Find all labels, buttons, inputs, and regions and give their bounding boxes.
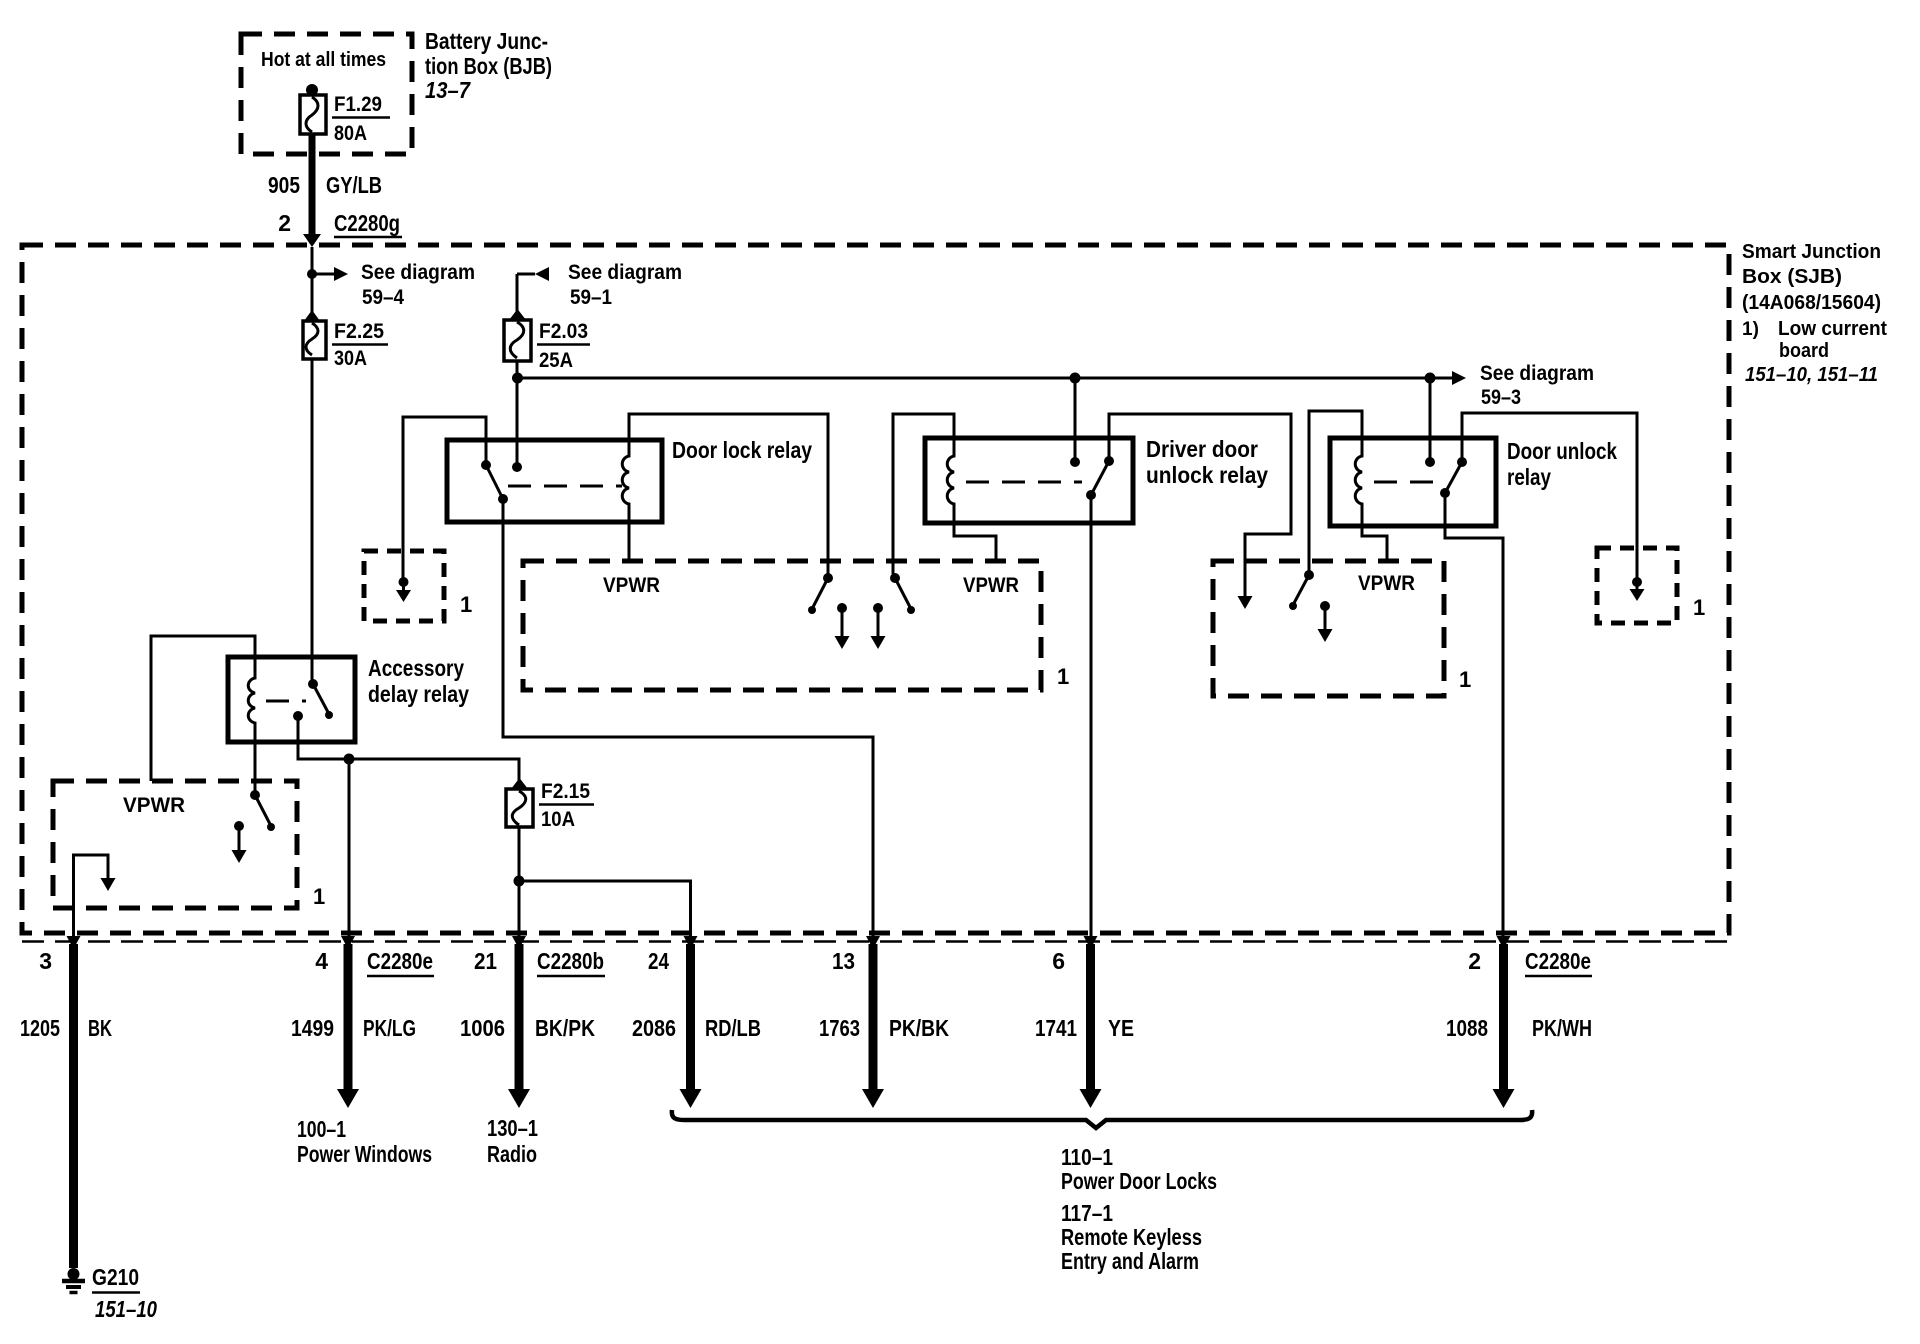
middle VPWR left switch arm xyxy=(812,578,828,609)
svg-text:tion Box (BJB): tion Box (BJB) xyxy=(425,53,552,79)
wire arrow: See diagram 59-1 (incoming) xyxy=(517,273,535,276)
wire: K2 coil top loop to VPWR switch xyxy=(893,414,954,574)
relay K3 mechanical link xyxy=(1374,481,1438,484)
svg-text:80A: 80A xyxy=(334,122,367,145)
left VPWR pin terminal with arrow xyxy=(234,821,244,831)
svg-text:RD/LB: RD/LB xyxy=(705,1015,761,1041)
svg-text:Box (SJB): Box (SJB) xyxy=(1742,266,1842,288)
wire: K2 coil bottom to VPWR bus xyxy=(954,505,996,561)
Battery Junction Box (BJB) dashed enclosure xyxy=(241,34,412,154)
svg-text:1763: 1763 xyxy=(819,1015,860,1041)
svg-text:BK/PK: BK/PK xyxy=(535,1015,595,1041)
svg-text:See diagram: See diagram xyxy=(361,261,475,284)
pin 6 connector arrow xyxy=(1084,936,1098,949)
node: junction under F2.03 xyxy=(512,373,523,384)
middle VPWR left switch node xyxy=(823,573,833,583)
fuse F2.15 10A xyxy=(506,778,594,831)
relay K4 Accessory delay relay box xyxy=(228,657,355,742)
svg-text:13: 13 xyxy=(832,948,855,974)
terminal arrow inside right connector box xyxy=(1632,577,1642,587)
svg-text:59–3: 59–3 xyxy=(1481,386,1521,409)
relay K1 mechanical link xyxy=(508,485,622,488)
wire 2086 RD/LB output stub xyxy=(686,944,695,1090)
middle VPWR right switch node xyxy=(890,573,900,583)
label: Accessory delay relay xyxy=(368,655,469,707)
relay K1 switch arm xyxy=(486,465,503,499)
wire 1741 YE output stub xyxy=(1086,944,1095,1090)
svg-text:1088: 1088 xyxy=(1446,1015,1488,1041)
relay K3 coil xyxy=(1355,438,1362,526)
svg-text:13–7: 13–7 xyxy=(425,77,471,103)
svg-text:Door lock relay: Door lock relay xyxy=(672,437,812,463)
svg-text:board: board xyxy=(1779,340,1829,362)
svg-text:PK/BK: PK/BK xyxy=(889,1015,949,1041)
wire: K3 arm output down over and down to pin 2 xyxy=(1445,493,1503,936)
pin 3 connector arrow xyxy=(67,936,81,949)
wire: K1 coil top loop to VPWR switch xyxy=(629,414,828,574)
svg-text:100–1: 100–1 xyxy=(297,1116,346,1142)
svg-text:151–10: 151–10 xyxy=(95,1296,157,1322)
relay K3 switch pivot node xyxy=(1457,457,1467,467)
middle VPWR pin terminal 1 xyxy=(837,603,847,613)
svg-text:Hot at all times: Hot at all times xyxy=(261,49,386,71)
wire: K3 coil bottom to right VPWR bus xyxy=(1362,507,1387,561)
svg-text:117–1: 117–1 xyxy=(1061,1200,1113,1226)
relay K1 switch pivot node xyxy=(481,460,491,470)
wire 1088 PK/WH output stub xyxy=(1499,944,1508,1090)
relay K3 Door unlock relay box xyxy=(1330,438,1496,526)
wire: K4 contact output to F2.15 feed xyxy=(298,716,519,782)
svg-text:Driver door: Driver door xyxy=(1146,436,1258,462)
svg-text:905: 905 xyxy=(268,172,300,198)
left VPWR switch arm xyxy=(255,795,271,826)
middle VPWR pin terminal 2 xyxy=(873,603,883,613)
svg-text:130–1: 130–1 xyxy=(487,1115,538,1141)
svg-text:See diagram: See diagram xyxy=(1480,362,1594,385)
brace grouping power door lock outputs xyxy=(672,1110,1532,1128)
Smart Junction Box (SJB) dashed enclosure xyxy=(22,245,1729,933)
wire: K3 coil top loop to right VPWR switch xyxy=(1309,411,1362,572)
svg-text:Radio: Radio xyxy=(487,1141,537,1167)
svg-text:C2280e: C2280e xyxy=(1525,948,1591,974)
wire: K4 coil top loop to left VPWR bus xyxy=(151,636,255,781)
pin 13 connector arrow xyxy=(866,936,880,949)
wire: F2.03 to door lock relay contact xyxy=(516,361,519,467)
svg-text:VPWR: VPWR xyxy=(123,794,185,817)
svg-text:Power Windows: Power Windows xyxy=(297,1141,432,1167)
svg-text:1006: 1006 xyxy=(460,1015,505,1041)
relay K2 switch pivot node xyxy=(1104,456,1114,466)
svg-text:1: 1 xyxy=(313,884,325,909)
wire arrow: See diagram 59-4 xyxy=(312,273,334,276)
svg-text:Door unlock: Door unlock xyxy=(1507,438,1617,464)
svg-text:F1.29: F1.29 xyxy=(334,93,382,116)
svg-text:2086: 2086 xyxy=(632,1015,676,1041)
svg-text:PK/WH: PK/WH xyxy=(1532,1015,1592,1041)
svg-text:21: 21 xyxy=(474,948,497,974)
svg-text:relay: relay xyxy=(1507,464,1551,490)
svg-text:VPWR: VPWR xyxy=(963,574,1019,597)
svg-text:YE: YE xyxy=(1108,1015,1134,1041)
svg-text:G210: G210 xyxy=(92,1264,139,1290)
node: branch to pin 4 xyxy=(344,754,355,765)
svg-text:C2280g: C2280g xyxy=(334,210,400,236)
wire: F2.25 down to accessory delay relay switch xyxy=(311,359,314,684)
wire: ground leg from pin 3 up into left VPWR with arrow terminal xyxy=(74,855,109,936)
wire: K2 arm output down to pin 6 xyxy=(1090,495,1093,936)
svg-text:delay relay: delay relay xyxy=(368,681,469,707)
right VPWR switch arm xyxy=(1293,575,1309,605)
fuse F2.03 25A xyxy=(504,309,590,372)
svg-text:110–1: 110–1 xyxy=(1061,1144,1113,1170)
ground G210 symbol xyxy=(62,1268,85,1293)
wire 1205 BK to ground xyxy=(69,944,78,1268)
svg-text:1: 1 xyxy=(1459,667,1471,692)
VPWR box right (SJB internal) xyxy=(1213,561,1444,696)
pin 2 connector arrow xyxy=(1497,936,1511,949)
relay K2 switch arm xyxy=(1091,461,1109,495)
svg-text:GY/LB: GY/LB xyxy=(326,172,382,198)
svg-text:10A: 10A xyxy=(541,808,575,831)
wire: VPWR rail to See diagram 59-3 xyxy=(518,377,1453,380)
svg-text:Power Door Locks: Power Door Locks xyxy=(1061,1168,1217,1194)
svg-text:C2280e: C2280e xyxy=(367,948,433,974)
svg-text:30A: 30A xyxy=(334,347,367,370)
terminal arrow in right VPWR box xyxy=(1244,565,1247,597)
svg-text:VPWR: VPWR xyxy=(1358,572,1415,595)
relay K3 switch arm xyxy=(1445,462,1462,493)
pin 4 connector arrow xyxy=(341,936,355,949)
wire 1763 PK/BK output stub xyxy=(869,944,878,1090)
pin 24 connector arrow xyxy=(684,936,698,949)
svg-text:25A: 25A xyxy=(539,349,573,372)
wire: rail down to driver door unlock relay contact xyxy=(1074,378,1077,462)
svg-text:2: 2 xyxy=(278,210,291,236)
VPWR box middle (SJB internal) xyxy=(523,561,1041,690)
relay K1 Door lock relay box xyxy=(447,440,662,522)
svg-text:VPWR: VPWR xyxy=(603,574,660,597)
svg-text:C2280b: C2280b xyxy=(537,948,604,974)
relay K2 coil xyxy=(947,438,954,523)
svg-text:F2.25: F2.25 xyxy=(334,320,384,343)
svg-text:24: 24 xyxy=(648,948,669,974)
svg-text:Low current: Low current xyxy=(1778,318,1887,340)
svg-text:Smart Junction: Smart Junction xyxy=(1742,241,1881,263)
svg-text:F2.15: F2.15 xyxy=(541,780,590,803)
svg-text:3: 3 xyxy=(39,948,52,974)
connector box (single terminal) right xyxy=(1597,548,1677,623)
wire: branch down to pin 4 xyxy=(348,759,351,936)
wire 1006 BK/PK output stub xyxy=(515,944,524,1090)
fuse F2.25 30A xyxy=(303,310,388,370)
relay K1 switch contact node (from F2.03) xyxy=(512,462,522,472)
wire: K1 coil bottom to VPWR bus xyxy=(628,504,631,561)
wire: K4 coil bottom to left VPWR switch xyxy=(254,723,257,795)
svg-text:2: 2 xyxy=(1468,948,1481,974)
svg-text:1741: 1741 xyxy=(1035,1015,1077,1041)
svg-text:59–1: 59–1 xyxy=(570,286,612,309)
wire: K1 pivot up and over to connector box xyxy=(403,417,486,578)
svg-text:PK/LG: PK/LG xyxy=(363,1015,416,1041)
relay K2 mechanical link xyxy=(966,481,1082,484)
svg-text:See diagram: See diagram xyxy=(568,261,682,284)
svg-text:Battery Junc-: Battery Junc- xyxy=(425,28,548,54)
connector pin arrow at C2280g xyxy=(303,234,321,247)
svg-text:Accessory: Accessory xyxy=(368,655,464,681)
svg-text:1205: 1205 xyxy=(20,1015,60,1041)
svg-text:1: 1 xyxy=(1057,664,1069,689)
middle VPWR right switch arm xyxy=(895,578,911,609)
svg-text:1: 1 xyxy=(460,592,472,617)
wire: 905 GY/LB feed from F1.29 to C2280g xyxy=(309,134,316,236)
terminal arrow inside connector box xyxy=(399,577,409,587)
wire: K2 pivot up over and down to right VPWR terminal xyxy=(1109,414,1291,565)
svg-text:151–10, 151–11: 151–10, 151–11 xyxy=(1745,364,1878,386)
svg-text:1499: 1499 xyxy=(291,1015,334,1041)
fuse F1.29 80A xyxy=(300,84,390,145)
right VPWR switch node xyxy=(1304,570,1314,580)
pin 21 connector arrow xyxy=(512,936,526,949)
relay K3 switch contact node (from rail) xyxy=(1425,457,1435,467)
wire: branch over and down to pin 24 xyxy=(519,881,691,936)
label: Door unlock relay xyxy=(1507,438,1617,490)
SJB low-current board inner dashed line xyxy=(22,940,1729,943)
relay K4 switch arm (open) xyxy=(313,684,329,714)
left VPWR switch node xyxy=(250,790,260,800)
node: branch under F2.15 to pin 24 xyxy=(514,876,525,887)
svg-text:(14A068/15604): (14A068/15604) xyxy=(1742,292,1881,314)
svg-text:F2.03: F2.03 xyxy=(539,320,588,343)
relay K2 switch contact node (from rail) xyxy=(1070,457,1080,467)
wire: K3 pivot up over to right connector box xyxy=(1462,413,1637,578)
relay K4 mechanical link xyxy=(266,700,306,703)
node: branch to See diagram 59-4 xyxy=(307,269,317,279)
svg-text:1: 1 xyxy=(1693,595,1705,620)
node: rail junction to door unlock relay xyxy=(1425,373,1436,384)
svg-text:BK: BK xyxy=(88,1015,112,1041)
label: Driver door unlock relay xyxy=(1146,436,1268,488)
svg-text:59–4: 59–4 xyxy=(362,286,404,309)
connector box (single terminal) left of door lock relay xyxy=(364,551,444,621)
relay K4 coil xyxy=(248,657,255,742)
wire: rail down to door unlock relay contact xyxy=(1429,378,1432,462)
label: Smart Junction Box (SJB) (14A068/15604) 1) Low current board 151-10, 151-11 xyxy=(1742,241,1887,386)
VPWR box left (SJB internal) xyxy=(53,781,297,908)
svg-text:unlock relay: unlock relay xyxy=(1146,462,1268,488)
svg-text:Remote Keyless: Remote Keyless xyxy=(1061,1224,1202,1250)
wire 1499 PK/LG output stub xyxy=(344,944,353,1090)
svg-text:6: 6 xyxy=(1052,948,1065,974)
svg-text:4: 4 xyxy=(315,948,328,974)
right VPWR pin terminal xyxy=(1320,601,1330,611)
relay K4 switch pivot node xyxy=(308,679,318,689)
wire: K1 arm output down and over to pin 13 xyxy=(503,499,873,936)
wire: C2280g into SJB down to F2.25 xyxy=(311,247,314,312)
relay K2 Driver door unlock relay box xyxy=(925,438,1133,523)
node: rail junction to driver door unlock relay xyxy=(1070,373,1081,384)
svg-text:Entry and Alarm: Entry and Alarm xyxy=(1061,1248,1199,1274)
relay K1 coil xyxy=(622,440,629,522)
label: Battery Junction Box (BJB) 13-7 xyxy=(425,28,552,103)
relay K4 switch contact node xyxy=(293,711,303,721)
wire: F2.15 down to pin 21 xyxy=(518,827,521,936)
svg-text:1): 1) xyxy=(1742,319,1759,340)
wire: 59-1 feed down to F2.03 xyxy=(516,274,519,312)
